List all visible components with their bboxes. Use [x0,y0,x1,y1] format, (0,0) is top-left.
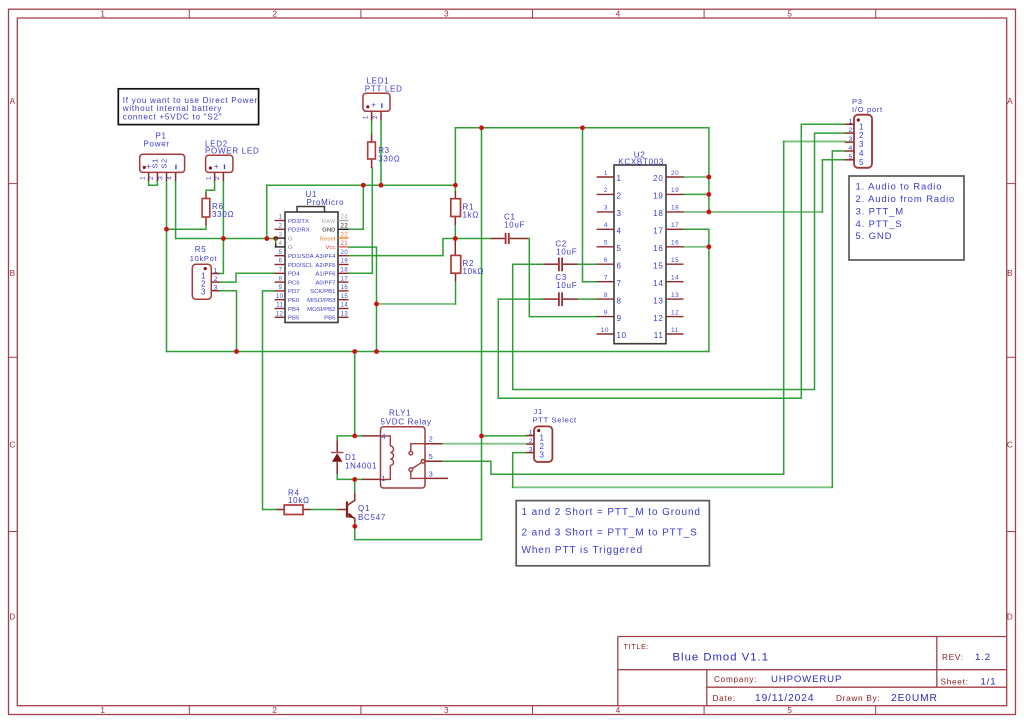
svg-text:2: 2 [604,187,608,194]
svg-text:1/1: 1/1 [981,677,997,688]
svg-text:A1/PF6: A1/PF6 [315,272,336,278]
svg-text:2: 2 [529,438,533,445]
svg-text:4: 4 [859,149,864,158]
U1 right pin names [307,219,336,322]
svg-text:9: 9 [279,285,283,291]
svg-text:17: 17 [341,276,349,282]
node GND top row / long vertical junction [479,125,484,130]
svg-text:13: 13 [653,296,663,305]
U2 left pin stubs [597,177,614,334]
U1 right pin numbers [341,215,349,318]
svg-text:UHPOWERUP: UHPOWERUP [771,674,842,685]
svg-text:8: 8 [604,292,608,299]
svg-text:1: 1 [529,430,533,437]
svg-text:POWER LED: POWER LED [205,146,260,155]
node U2 pin16 junction [707,244,712,249]
U1 G pin stubs (black) with bracket [275,238,285,247]
svg-text:KCXBT003: KCXBT003 [618,157,664,166]
wire LED2 pin2 drop to ground row and R5 pin1 [219,181,223,273]
svg-text:3: 3 [201,288,206,297]
svg-text:3: 3 [444,706,449,715]
wire relay pin2 to J1 pin2 [442,443,526,445]
svg-text:connect +5VDC to "S2": connect +5VDC to "S2" [123,112,223,121]
wire U1 PD7 to R4 [263,291,277,510]
svg-text:2E0UMR: 2E0UMR [891,693,938,704]
svg-text:9: 9 [604,309,608,316]
svg-text:TITLE:: TITLE: [624,642,650,651]
node Vcc/R2 junction [374,302,379,307]
svg-text:A2/PF5: A2/PF5 [315,263,336,269]
wire U1 GND pin up to mid row [349,185,364,229]
svg-text:1: 1 [362,115,369,119]
wire LED2 pin1 to R6 top [206,181,215,192]
node GND top row / U2 pin7 drop junction [580,125,585,130]
wire U2 pin20 stub link [684,176,709,178]
svg-text:7: 7 [604,275,608,282]
note box direct power [118,89,258,125]
svg-text:A: A [1007,97,1013,106]
title block frame [618,637,1007,706]
relay RLY1 5VDC Relay [362,408,448,488]
svg-text:15: 15 [671,257,679,264]
node R1 bottom / C1 row junction [453,236,458,241]
svg-text:3: 3 [540,451,545,460]
svg-text:PC6: PC6 [288,280,300,286]
diode D1 1N4001 [331,436,377,480]
wire P1 pin3 S2 drop to +5V rail [166,181,168,352]
svg-text:3: 3 [429,469,434,478]
svg-text:1N4001: 1N4001 [345,461,377,470]
wire LED1 pin2 cathode drop [380,120,382,185]
svg-text:18: 18 [671,205,679,212]
relay right stubs [425,444,448,479]
wire C1 right to U2 pin9 [528,239,597,317]
svg-text:5: 5 [848,154,852,161]
svg-text:ProMicro: ProMicro [307,198,345,207]
svg-text:1: 1 [100,706,105,715]
wire +5V rail [167,351,709,353]
svg-text:C: C [1007,440,1014,449]
relay coil [381,436,394,480]
node Q1 emitter junction [352,524,357,529]
svg-text:5: 5 [787,9,792,18]
svg-text:Sheet:: Sheet: [941,678,969,687]
svg-text:3: 3 [848,136,852,143]
svg-text:1: 1 [100,9,105,18]
svg-text:3: 3 [157,176,164,180]
svg-text:D: D [1007,613,1014,622]
svg-text:Power: Power [144,140,170,149]
svg-text:12: 12 [276,312,284,318]
svg-text:2: 2 [272,706,277,715]
svg-text:8: 8 [279,276,283,282]
wire R4 right to Q1 base [311,509,337,511]
svg-text:12: 12 [653,314,663,323]
svg-text:10kPot: 10kPot [190,254,218,263]
wire J1 pin1 row [482,435,527,437]
capacitor C2 10uF [544,240,578,272]
svg-text:5: 5 [617,244,622,253]
node R5 pin3 +5V junction [234,349,239,354]
svg-text:5: 5 [429,452,434,461]
svg-text:2: 2 [214,276,218,283]
svg-text:9: 9 [617,314,622,323]
svg-text:Date:: Date: [713,694,736,703]
wire relay coil bottom row [337,478,362,480]
svg-text:A: A [10,97,16,106]
U1 left pin names [288,219,314,322]
svg-text:17: 17 [653,227,663,236]
wire GND drop to U2 pin7 [583,128,597,282]
svg-text:3: 3 [859,140,864,149]
wire P1 pin1-pin2 jumper [149,181,158,186]
svg-text:MISO/PB3: MISO/PB3 [307,298,336,304]
resistor R3 330 [368,134,401,168]
svg-text:D: D [9,613,16,622]
relay left stub pin4 [362,435,381,437]
svg-text:A0/PF7: A0/PF7 [315,280,335,286]
svg-text:20: 20 [341,250,349,256]
U1 pins 1-12 left stubs [275,221,285,318]
IC U2 KCXBT003 [597,150,684,343]
node GND/U1-GND junction [361,183,366,188]
svg-text:17: 17 [671,222,679,229]
wire relay coil top row [337,435,362,437]
svg-text:1 and 2 Short = PTT_M to Groun: 1 and 2 Short = PTT_M to Ground [522,507,701,518]
svg-text:3: 3 [444,9,449,18]
wire GND row vertical to mid row [454,128,456,185]
wire R2 bottom to Vcc line [455,282,457,304]
svg-text:12: 12 [671,309,679,316]
transistor Q1 BC547 [347,493,386,523]
node LED1 cathode junction [379,183,384,188]
svg-text:4: 4 [617,227,622,236]
resistor R4 10k [276,488,346,514]
svg-text:4: 4 [166,176,173,180]
svg-text:PE6: PE6 [288,298,300,304]
svg-text:Company:: Company: [714,675,757,684]
wire U2 pin18 row to P3 pin5 [684,211,823,213]
svg-text:PD2/RX: PD2/RX [288,228,310,234]
svg-text:22: 22 [341,224,349,230]
svg-text:2 and 3 Short = PTT_M to PTT_S: 2 and 3 Short = PTT_M to PTT_S [522,527,698,538]
svg-text:PD3/TX: PD3/TX [288,219,309,225]
svg-text:G: G [288,245,293,251]
svg-text:16: 16 [653,244,663,253]
svg-text:11: 11 [654,331,664,340]
svg-text:20: 20 [671,170,679,177]
svg-text:21: 21 [341,241,349,247]
svg-text:15: 15 [341,294,349,300]
wire U2 right GND vertical [708,128,710,212]
svg-text:14: 14 [653,279,663,288]
svg-text:B: B [1007,269,1013,278]
IC U1 ProMicro [275,190,349,323]
resistor R1 1k [451,191,479,225]
svg-text:4: 4 [604,222,608,229]
node U2 pin18 junction [707,210,712,215]
svg-text:7: 7 [279,268,283,274]
svg-text:1: 1 [382,474,387,483]
svg-text:S1: S1 [151,158,160,168]
node relay +5V junction [352,349,357,354]
svg-text:PB5: PB5 [288,316,300,322]
svg-text:5VDC Relay: 5VDC Relay [381,417,432,426]
wire U2 pin19 stub link [684,193,709,195]
svg-text:330Ω: 330Ω [378,154,400,163]
svg-text:3. PTT_M: 3. PTT_M [856,206,905,217]
svg-text:A3/PF4: A3/PF4 [315,254,336,260]
svg-text:13: 13 [341,312,349,318]
svg-text:2: 2 [272,9,277,18]
svg-text:1: 1 [214,268,218,275]
svg-text:PD7: PD7 [288,289,300,295]
wire C2 right to U2 pin6 [578,263,597,265]
node ground-row/U1-G junction [264,236,269,241]
svg-text:5: 5 [787,706,792,715]
svg-text:20: 20 [653,174,663,183]
svg-text:BC547: BC547 [358,513,386,522]
wire GND top row [455,127,709,129]
svg-text:2: 2 [848,127,852,134]
svg-text:2: 2 [372,115,379,119]
svg-text:1: 1 [139,176,146,180]
U2 right pin stubs [666,177,684,334]
svg-text:1: 1 [617,174,622,183]
relay contacts [409,444,425,479]
svg-text:REV:: REV: [942,653,964,662]
svg-text:2: 2 [279,224,283,230]
svg-text:2: 2 [617,192,622,201]
svg-text:RAW: RAW [322,219,336,225]
wire U2 pin17 to +5V rail [684,229,709,351]
wire Q1 emitter to GND rail [355,523,482,539]
U2 right pin numbers [671,170,679,334]
svg-text:MOSI/PB2: MOSI/PB2 [307,307,335,313]
svg-text:B: B [10,269,16,278]
svg-text:24: 24 [341,215,349,221]
title block text [624,642,997,704]
wire +5V drop to relay coil row [354,352,356,436]
LED LED1 PTT LED [362,76,402,120]
svg-text:6: 6 [617,261,622,270]
svg-text:PTT Select: PTT Select [533,415,577,424]
wire P1 pin4 drop [175,181,177,239]
wire relay pin1 row to Q1 collector [354,479,356,493]
svg-text:19: 19 [341,259,349,265]
svg-text:10: 10 [617,331,627,340]
svg-text:6: 6 [604,257,608,264]
svg-text:10uF: 10uF [504,221,525,230]
wire C3 right to U2 pin8 [578,298,597,300]
wire C2 left to P3 pin2 [513,133,845,389]
svg-text:PTT LED: PTT LED [365,84,403,93]
svg-text:+: + [214,162,219,171]
connector P1 Power [139,131,184,181]
node Vcc +5V junction [374,349,379,354]
wire R6 bottom to S2 line [167,225,207,229]
capacitor C1 10uF [491,212,528,244]
wire long GND vertical (top row to emitter row) [481,128,483,540]
svg-text:G: G [288,236,293,242]
note box PTT select [516,501,709,566]
svg-text:11: 11 [276,303,283,309]
svg-text:16: 16 [341,285,349,291]
svg-text:4: 4 [616,706,621,715]
node relay coil top junction [352,434,357,439]
node S2/R6 junction [164,227,169,232]
resistor R2 10k [451,241,484,282]
svg-text:2: 2 [429,435,434,444]
svg-text:PB4: PB4 [288,307,300,313]
svg-text:Reset: Reset [320,236,336,242]
svg-text:5: 5 [604,240,608,247]
svg-text:3: 3 [529,447,533,454]
svg-text:1: 1 [205,176,212,180]
wire R5 pin3 to +5V rail [219,291,237,352]
svg-text:7: 7 [617,279,622,288]
U1 right pin stubs [338,256,349,318]
svg-text:5: 5 [859,158,864,167]
svg-text:4. PTT_S: 4. PTT_S [856,219,903,230]
svg-text:4: 4 [848,145,852,152]
svg-text:6: 6 [279,259,283,265]
svg-text:RLY1: RLY1 [389,408,411,417]
svg-text:1.2: 1.2 [975,652,991,663]
connector P3 I/O port [845,97,883,168]
node LED2/ground-row junction [221,236,226,241]
svg-text:14: 14 [341,303,349,309]
svg-text:Vcc: Vcc [325,245,335,251]
svg-text:19: 19 [653,192,663,201]
node relay coil bottom junction [352,477,357,482]
svg-text:Drawn By:: Drawn By: [836,694,880,703]
U2 left pin numbers [601,170,609,334]
svg-text:10kΩ: 10kΩ [288,496,310,505]
U1 left pin numbers [276,215,284,318]
svg-text:15: 15 [653,261,663,270]
svg-text:Q1: Q1 [358,504,370,513]
svg-text:GND: GND [322,228,335,234]
svg-text:PB6: PB6 [324,316,336,322]
wire R3 bottom to U1 pin A1/PF6 [349,168,373,273]
wire GND mid row drop to U1 G pins [266,185,268,238]
svg-text:3: 3 [604,205,608,212]
node U2 pin19 junction [707,192,712,197]
wire ground row to U1 pin3 [176,238,275,240]
svg-text:1: 1 [604,170,608,177]
node R1 top junction [453,183,458,188]
svg-text:PD0/SCL: PD0/SCL [288,263,314,269]
wire R1 top lead [454,185,456,191]
svg-text:C: C [9,440,16,449]
svg-text:I/O port: I/O port [852,105,883,114]
svg-text:1: 1 [859,122,864,131]
svg-text:3: 3 [617,209,622,218]
svg-text:5: 5 [279,250,283,256]
svg-text:10: 10 [276,294,284,300]
svg-text:1kΩ: 1kΩ [463,210,480,219]
svg-text:3: 3 [279,232,283,238]
wire U1 A3/PF4 to C1 row [349,239,491,256]
svg-text:4: 4 [382,432,387,441]
node U2 pin20 junction [707,175,712,180]
svg-text:1: 1 [279,215,283,221]
note box IO pinout [849,176,964,260]
U2 inside pin numbers [617,174,627,340]
svg-text:10uF: 10uF [556,281,577,290]
svg-text:5. GND: 5. GND [856,231,893,242]
node J1 pin1 / GND vertical junction [479,434,484,439]
svg-text:Blue Dmod V1.1: Blue Dmod V1.1 [673,652,770,664]
wire U1 Vcc to +5V rail [349,247,377,351]
potentiometer R5 10kPot [190,245,219,299]
wire R5 pin2 to U1 PD4 [219,273,275,282]
svg-text:16: 16 [671,240,679,247]
svg-text:When PTT is Triggered: When PTT is Triggered [522,545,644,556]
wire U2 pin16 stub link [684,246,709,248]
svg-text:PD4: PD4 [288,272,300,278]
svg-text:S2: S2 [160,158,169,168]
svg-text:2. Audio from Radio: 2. Audio from Radio [856,194,956,205]
node U1 pin3 junction [273,236,278,241]
svg-text:19: 19 [671,187,679,194]
svg-text:18: 18 [341,268,349,274]
svg-text:1: 1 [848,118,852,125]
svg-text:19/11/2024: 19/11/2024 [755,693,814,704]
connector J1 PTT Select [526,407,577,462]
svg-text:4: 4 [279,241,283,247]
wire R1 bottom lead [454,225,456,239]
svg-text:2: 2 [148,176,155,180]
wire GND mid row [267,184,456,186]
LED LED2 POWER LED [205,140,260,182]
svg-text:10: 10 [601,327,609,334]
resistor R6 330 [202,193,234,226]
svg-text:14: 14 [671,275,679,282]
svg-text:PD1/SDA: PD1/SDA [288,254,314,260]
svg-text:4: 4 [616,9,621,18]
svg-text:22: 22 [341,232,349,238]
svg-text:13: 13 [671,292,679,299]
svg-text:2: 2 [859,131,864,140]
svg-text:330Ω: 330Ω [212,210,234,219]
capacitor C3 10uF [544,273,578,306]
wire relay pin5 common to P3 pin3 PTT_M [442,461,784,474]
svg-text:11: 11 [671,327,679,334]
svg-text:3: 3 [214,285,218,292]
svg-text:10uF: 10uF [556,247,577,256]
wire J1 pin3 to P3 pin4 PTT_S [513,453,527,488]
wire LED1 pin1 to R3 top [371,120,373,134]
svg-text:+: + [371,101,376,110]
svg-text:SCK/PB1: SCK/PB1 [310,289,335,295]
svg-text:10kΩ: 10kΩ [463,267,485,276]
svg-text:18: 18 [653,209,663,218]
svg-text:R5: R5 [195,245,207,254]
svg-text:2: 2 [214,176,221,180]
svg-text:8: 8 [617,296,622,305]
svg-text:1. Audio to Radio: 1. Audio to Radio [856,182,943,193]
wire C3 left to P3 pin1 [498,124,845,398]
